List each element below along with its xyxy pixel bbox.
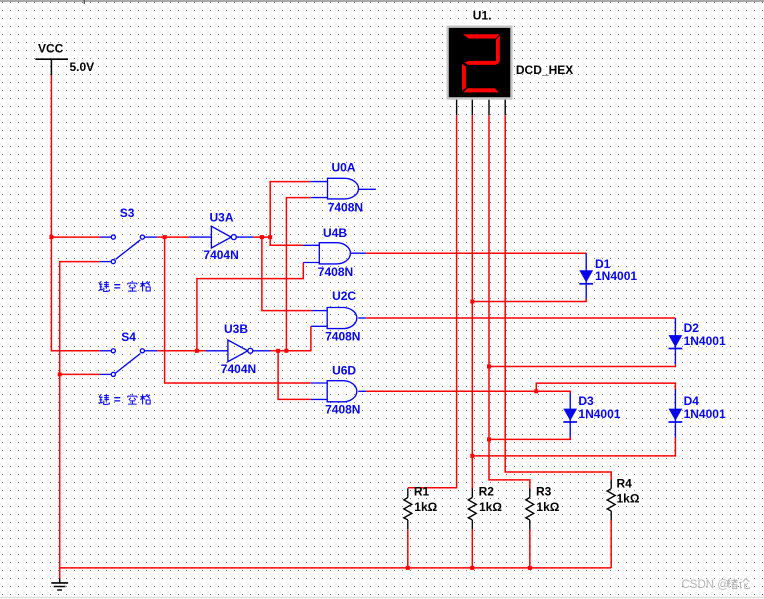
diode D1	[579, 253, 593, 299]
diode D2	[669, 318, 683, 364]
svg-text:7408N: 7408N	[325, 329, 360, 343]
wire S4 pole branch to U4B bottom input	[197, 263, 303, 351]
node S4 pole branch	[195, 349, 199, 353]
switch S3	[100, 235, 157, 264]
wire U6D out jog to D4	[536, 383, 675, 391]
wire S3 bottom contact to ground rail	[60, 262, 100, 579]
wire S4 bottom contact	[60, 373, 100, 375]
inverter U3A	[189, 226, 254, 248]
node D3 to pin3	[487, 437, 491, 441]
node U3A out B	[268, 235, 272, 239]
node S4 bottom contact tie	[58, 372, 62, 376]
resistor R2	[468, 488, 476, 529]
display pin 3	[488, 100, 490, 116]
svg-text:D3: D3	[578, 394, 594, 408]
wire U3A out branch to U2C top input	[262, 237, 312, 311]
wire D4 cathode to pin2	[472, 437, 675, 456]
svg-text:R1: R1	[414, 485, 430, 499]
wire display pin2 to R2	[471, 115, 473, 489]
svg-text:U4B: U4B	[323, 226, 347, 240]
display pin 2	[471, 100, 473, 116]
resistor R4	[607, 480, 615, 521]
S3 key label 键 = 空格	[99, 280, 151, 294]
node D2 to pin3	[487, 365, 491, 369]
wire display pin1 to R1	[408, 115, 457, 488]
node R1 rail	[406, 566, 410, 570]
ground	[51, 579, 68, 591]
svg-text:R3: R3	[536, 485, 552, 499]
wire VCC rail down to S4 top feed	[51, 75, 100, 351]
svg-text:1kΩ: 1kΩ	[536, 500, 559, 514]
power VCC	[35, 42, 94, 76]
wire U6D output to D3	[366, 391, 570, 393]
wire S4 pole to U3B input	[157, 350, 205, 352]
svg-text:7408N: 7408N	[325, 402, 360, 416]
sheet border top	[0, 0, 764, 4]
seven-segment display U1	[447, 26, 513, 100]
svg-text:CSDN @: CSDN @	[682, 579, 729, 591]
wire D3 cathode to pin3	[489, 437, 570, 439]
wire display pin4 to R4	[505, 115, 611, 480]
wire U3A out branch to U0A top input and U4B top input	[270, 182, 310, 246]
svg-text:U0A: U0A	[332, 161, 356, 175]
node U6D out to D4 jog	[534, 389, 538, 393]
node U3B out B	[284, 349, 288, 353]
svg-text:U2C: U2C	[332, 289, 356, 303]
svg-text:=: =	[114, 393, 121, 407]
diode D3	[563, 393, 577, 437]
node U3B out A	[276, 349, 280, 353]
wire S3 top feed	[51, 236, 100, 238]
svg-text:VCC: VCC	[38, 42, 64, 56]
node D4 to pin2	[470, 454, 474, 458]
svg-text:1N4001: 1N4001	[578, 407, 620, 421]
wire R2 bottom	[471, 529, 473, 568]
wire U4B output to D1	[366, 252, 586, 254]
segment a	[463, 34, 500, 38]
wire U3B out branch to U6D bottom input	[278, 351, 311, 400]
AND gate U6D	[311, 381, 366, 402]
segment e	[462, 64, 466, 91]
svg-text:R2: R2	[479, 485, 495, 499]
svg-text:S4: S4	[121, 330, 136, 344]
display pin 1	[456, 100, 458, 116]
svg-text:1kΩ: 1kΩ	[414, 500, 437, 514]
svg-text:1N4001: 1N4001	[684, 407, 726, 421]
AND gate U2C	[311, 308, 366, 329]
svg-text:DCD_HEX: DCD_HEX	[516, 63, 573, 77]
svg-text:1N4001: 1N4001	[595, 269, 637, 283]
node R2 rail	[470, 566, 474, 570]
segment b	[496, 35, 500, 64]
svg-text:1kΩ: 1kΩ	[479, 500, 502, 514]
resistor R1	[404, 488, 412, 529]
wire R4 bottom	[610, 520, 612, 568]
wire U3B output to U2C bottom input	[271, 326, 311, 351]
svg-text:7404N: 7404N	[221, 362, 256, 376]
diode D4	[669, 390, 683, 438]
wire display pin3 to R3	[489, 115, 530, 489]
svg-text:=: =	[114, 280, 121, 294]
svg-text:1kΩ: 1kΩ	[617, 492, 640, 506]
resistor R3	[526, 488, 534, 529]
AND gate U0A	[310, 178, 376, 199]
wire R1 bottom	[407, 529, 409, 568]
node R3 rail	[528, 566, 532, 570]
segment d	[463, 88, 499, 92]
watermark CSDN	[682, 578, 750, 591]
node U3A out A	[260, 235, 264, 239]
wire U0A bottom input from U3B output	[286, 198, 310, 351]
svg-text:D4: D4	[684, 394, 700, 408]
svg-text:1N4001: 1N4001	[684, 334, 726, 348]
S4 key label 键 = 空格	[99, 393, 151, 407]
node D1 to pin2	[470, 300, 474, 304]
svg-text:R4: R4	[617, 477, 633, 491]
wire S3 pole branch to U6D top input	[165, 237, 311, 383]
svg-text:U1.: U1.	[473, 8, 492, 22]
svg-text:7408N: 7408N	[328, 201, 363, 215]
wire D2 cathode to pin3	[489, 364, 675, 367]
svg-text:5.0V: 5.0V	[70, 60, 95, 74]
switch S4	[100, 349, 157, 377]
wire ground rail	[60, 567, 612, 569]
wire R3 bottom	[529, 529, 531, 568]
svg-text:7408N: 7408N	[318, 265, 353, 279]
wire S3 pole to U3A input	[157, 236, 189, 238]
svg-text:7404N: 7404N	[203, 248, 238, 262]
svg-text:U3B: U3B	[224, 322, 248, 336]
svg-text:U3A: U3A	[210, 210, 234, 224]
wire U2C output to D2	[366, 317, 675, 319]
svg-text:S3: S3	[120, 206, 135, 220]
wire U3A output	[254, 236, 271, 238]
node VCC-S3	[49, 235, 53, 239]
window bottom edge	[0, 596, 764, 598]
svg-text:U6D: U6D	[332, 364, 356, 378]
inverter U3B	[206, 340, 271, 362]
AND gate U4B	[303, 243, 366, 264]
wire D1 cathode to pin2	[472, 299, 586, 302]
svg-text:D2: D2	[684, 321, 700, 335]
segment g	[464, 61, 499, 65]
node S3 pole branch	[163, 235, 167, 239]
display pin 4	[504, 100, 506, 116]
